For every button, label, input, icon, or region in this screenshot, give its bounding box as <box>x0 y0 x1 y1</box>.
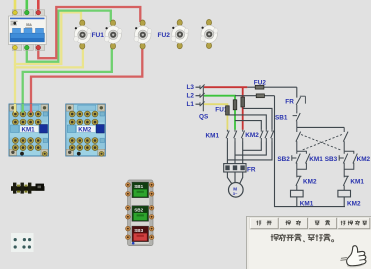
label FU2 schematic <box>254 79 267 86</box>
svg-text:SB2: SB2 <box>134 208 143 213</box>
label SB1 <box>275 114 288 121</box>
button SB3 <box>132 226 149 241</box>
label KM2 contacts <box>245 132 259 139</box>
wire green stub at KM1 terminal 2 <box>22 104 24 113</box>
wire L2 green: top stub into breaker <box>25 0 28 11</box>
svg-text:L3: L3 <box>187 84 195 91</box>
svg-text:KM2: KM2 <box>245 132 259 139</box>
fuse FU2a schematic <box>247 85 296 89</box>
svg-text:L1: L1 <box>187 101 195 108</box>
wire green: fuse FU1b bottom to KM1 terminal 2 <box>23 45 112 113</box>
wire left parallel box <box>297 151 307 176</box>
toolbar button hints <box>338 218 370 229</box>
svg-text:FU1: FU1 <box>92 32 105 39</box>
wire right parallel box <box>344 151 354 176</box>
button SB2 NO contact <box>292 154 301 164</box>
toolbar button answer <box>308 218 336 229</box>
wire L3 red colored <box>204 87 247 130</box>
label FU1 <box>92 32 105 39</box>
svg-text:KM2: KM2 <box>303 179 317 186</box>
label FR heaters <box>247 166 256 173</box>
wire green: breaker out to fuse FU1b top (loop over) <box>27 11 111 62</box>
svg-text:FR: FR <box>285 99 294 106</box>
fuse FU1c <box>134 20 152 49</box>
svg-text:FU2: FU2 <box>158 32 171 39</box>
wire KM2 outputs rejoin <box>227 142 272 160</box>
fuse FU1 schematic elements <box>226 97 245 115</box>
wire L1 yellow: top stub into breaker <box>14 0 17 11</box>
wire yellow: fuse FU1a bottom to KM1 terminal 1 <box>15 45 83 112</box>
svg-text:55A: 55A <box>26 23 33 27</box>
svg-text:FR: FR <box>247 166 256 173</box>
motor M <box>227 172 243 197</box>
terminal strip XT <box>11 183 45 194</box>
svg-text:SB2: SB2 <box>277 156 290 163</box>
fuse FU2a <box>171 20 189 49</box>
wire red: breaker out to fuse FU1c top (loop over) <box>38 7 140 58</box>
label KM1 interlock <box>350 179 364 186</box>
label SB2 <box>277 156 290 163</box>
coil KM2 <box>338 190 351 206</box>
wire L3 red: top stub into breaker <box>37 0 40 11</box>
wire KM1 outputs down to FR <box>227 142 242 164</box>
label FU2 <box>158 32 171 39</box>
svg-text:KM2: KM2 <box>347 200 361 207</box>
label FU1 schematic <box>215 106 228 113</box>
svg-text:QS: QS <box>199 114 209 121</box>
button SB1 NC contact <box>293 111 301 128</box>
label KM2 interlock <box>303 179 317 186</box>
label SB3 <box>325 156 338 163</box>
label L1 <box>187 101 195 108</box>
label L3 <box>187 84 195 91</box>
label FR contact <box>285 99 294 106</box>
contact KM1 aux NO <box>306 154 310 164</box>
label KM1 coil <box>300 200 314 207</box>
label KM1 contacts <box>206 132 220 139</box>
fuse FU2b <box>200 19 218 48</box>
svg-text:SB1: SB1 <box>134 184 143 189</box>
wire control return rail <box>275 96 346 207</box>
panel background <box>247 216 371 269</box>
svg-text:KM1: KM1 <box>300 200 314 207</box>
contact KM1 NC interlock <box>343 176 349 190</box>
contactor KM2 <box>66 104 106 156</box>
label L2 <box>187 93 195 100</box>
wire control feed rail <box>296 87 298 97</box>
svg-text:SB1: SB1 <box>275 114 288 121</box>
label KM2 coil <box>347 200 361 207</box>
wire L1 yellow colored <box>204 104 227 130</box>
svg-text:KM2: KM2 <box>78 126 92 133</box>
contact KM2 aux NO <box>353 154 357 164</box>
button station terminals <box>126 183 154 245</box>
thumbs up icon <box>339 245 367 269</box>
motor terminal block <box>11 233 34 252</box>
message text wiring correct please continue <box>271 234 334 242</box>
toolbar button save <box>279 218 307 229</box>
label QS <box>199 114 209 121</box>
svg-text:KM1: KM1 <box>309 156 323 163</box>
label KM2 aux <box>357 156 371 163</box>
button SB3 NO contact <box>339 154 348 164</box>
wire crossover to KM2 contacts <box>227 108 272 129</box>
contactor KM1 main contacts <box>226 130 244 142</box>
contact KM2 NC interlock <box>296 176 302 190</box>
coil KM1 <box>291 190 304 206</box>
svg-text:L2: L2 <box>187 93 195 100</box>
contactor KM2 main contacts <box>260 130 274 142</box>
svg-text:KM1: KM1 <box>206 132 220 139</box>
wire branch junction <box>297 126 344 128</box>
fuse FU1a <box>74 20 92 49</box>
button SB1 <box>132 182 149 197</box>
wire yellow stub at KM1 terminal 1 <box>14 104 16 113</box>
wire yellow: breaker out to fuse FU1a top (loop over) <box>15 12 81 64</box>
svg-text:KM2: KM2 <box>357 156 371 163</box>
thermal contact FR NC <box>296 96 305 110</box>
fuse FU1b <box>104 20 122 49</box>
svg-text:SB3: SB3 <box>325 156 338 163</box>
label KM1 aux <box>309 156 323 163</box>
wire red stub at KM1 terminal 3 <box>30 104 32 113</box>
button station panel <box>128 180 153 246</box>
wire L2 green colored <box>204 96 235 130</box>
svg-text:SB3: SB3 <box>134 228 143 233</box>
thermal relay FR heaters <box>224 164 246 172</box>
svg-text:KM1: KM1 <box>22 126 36 133</box>
circuit breaker QF <box>9 10 47 51</box>
mechanical interlock dashed links <box>301 135 342 151</box>
button SB3 NC contact in left branch <box>296 127 301 151</box>
fuse FU2b schematic <box>235 94 275 98</box>
toolbar button open <box>250 218 278 229</box>
button SB2 <box>132 206 149 221</box>
wire red: fuse FU1c bottom to KM1 terminal 3 <box>31 45 142 113</box>
svg-text:3~: 3~ <box>233 191 238 196</box>
switch QS <box>196 85 205 112</box>
button SB2 NC contact in right branch <box>343 127 348 151</box>
contactor KM1 <box>9 104 49 156</box>
svg-text:KM1: KM1 <box>350 179 364 186</box>
